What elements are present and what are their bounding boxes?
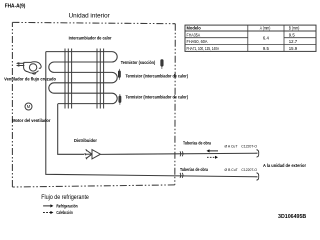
svg-text:Distribuidor: Distribuidor [74, 138, 97, 143]
svg-text:M: M [27, 104, 31, 109]
svg-text:Refrigeración: Refrigeración [56, 203, 77, 209]
svg-text:3D106495B: 3D106495B [278, 214, 307, 220]
svg-text:Tuberías de obra: Tuberías de obra [180, 167, 208, 172]
svg-text:Flujo de refrigerante: Flujo de refrigerante [41, 195, 89, 201]
svg-text:Termistor (intercambiador de c: Termistor (intercambiador de calor) [126, 74, 189, 79]
svg-text:B (mm): B (mm) [289, 26, 300, 31]
svg-text:Ventilador de flujo cruzado: Ventilador de flujo cruzado [4, 77, 56, 82]
svg-text:FHA-A(9): FHA-A(9) [5, 4, 26, 10]
svg-text:FHA50, 60A: FHA50, 60A [187, 39, 208, 44]
svg-text:15.9: 15.9 [289, 46, 298, 51]
svg-text:Intercambiador de calor: Intercambiador de calor [69, 35, 112, 40]
svg-text:Tuberías de obra: Tuberías de obra [183, 141, 211, 146]
svg-text:9.5: 9.5 [263, 46, 270, 51]
svg-text:Calefacción: Calefacción [56, 210, 72, 216]
svg-text:Ø A CuT C1220T-O: Ø A CuT C1220T-O [225, 144, 258, 148]
svg-text:Termistor (intercambiador de c: Termistor (intercambiador de calor) [126, 95, 189, 100]
svg-text:FHA35A: FHA35A [187, 33, 201, 38]
svg-text:Termistor (succión): Termistor (succión) [121, 60, 156, 65]
svg-text:12.7: 12.7 [289, 39, 298, 44]
svg-text:Unidad interior: Unidad interior [69, 12, 111, 19]
svg-text:Ø B CuT C1220T-O: Ø B CuT C1220T-O [225, 168, 258, 172]
svg-text:9.5: 9.5 [289, 33, 296, 38]
svg-text:A la unidad de exterior: A la unidad de exterior [263, 163, 306, 168]
svg-text:Modelo: Modelo [187, 26, 202, 31]
svg-text:6.4: 6.4 [263, 36, 270, 41]
svg-text:Motor del ventilador: Motor del ventilador [12, 118, 51, 123]
svg-text:A (mm): A (mm) [260, 26, 271, 31]
svg-text:FHA71, 100, 125, 140A: FHA71, 100, 125, 140A [187, 46, 220, 51]
